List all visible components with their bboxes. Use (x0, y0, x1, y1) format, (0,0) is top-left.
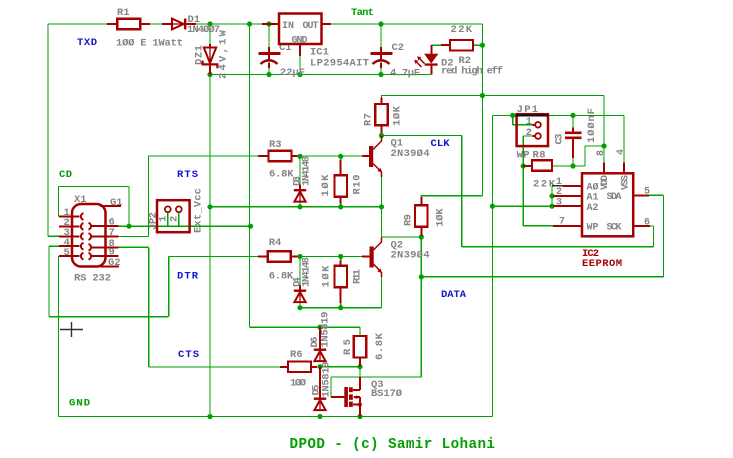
svg-text:G2: G2 (108, 257, 121, 269)
connector JP2 (157, 200, 190, 232)
resistor R6 (280, 366, 289, 368)
svg-text:Tant: Tant (351, 7, 374, 19)
svg-text:CTS: CTS (178, 349, 199, 361)
svg-text:C2: C2 (392, 42, 405, 54)
wire (297, 155, 365, 157)
wire (118, 246, 148, 248)
wire (513, 124, 533, 126)
eeprom IC2 (582, 173, 633, 236)
wire (572, 139, 574, 166)
wire (359, 327, 361, 336)
wire (58, 256, 60, 416)
wire (59, 416, 493, 418)
wire (481, 24, 483, 196)
svg-text:DTR: DTR (177, 271, 199, 283)
junction (601, 143, 606, 148)
svg-text:1N4148: 1N4148 (300, 257, 312, 287)
svg-text:22K: 22K (533, 179, 556, 191)
svg-text:X1: X1 (74, 194, 87, 206)
wire (382, 236, 422, 238)
junction (570, 163, 575, 168)
junction (510, 113, 515, 118)
svg-text:SCK: SCK (607, 222, 622, 233)
junction (317, 325, 322, 330)
wire (492, 205, 552, 207)
diode D6 (319, 327, 321, 348)
svg-text:red high eff: red high eff (441, 66, 503, 78)
svg-text:CLK: CLK (431, 138, 451, 150)
wire (147, 156, 149, 237)
wire (381, 172, 383, 237)
svg-text:2: 2 (526, 127, 532, 139)
svg-text:6.8K: 6.8K (269, 169, 294, 181)
svg-text:1N5819: 1N5819 (321, 362, 333, 398)
wire (492, 114, 624, 116)
wire (462, 246, 654, 248)
regulator IC1 (279, 14, 322, 45)
wire (461, 136, 463, 247)
diode D5 (319, 367, 321, 398)
junction (379, 133, 384, 138)
svg-text:JP2: JP2 (148, 212, 160, 230)
wire (522, 136, 524, 226)
junction (378, 72, 383, 77)
wire (297, 256, 365, 258)
wire (573, 165, 585, 167)
wire (49, 316, 169, 318)
svg-text:4.7µF: 4.7µF (390, 68, 420, 80)
resistor R8 (523, 165, 532, 167)
wire (59, 186, 130, 188)
svg-text:3: 3 (556, 197, 562, 208)
wire (603, 146, 605, 163)
svg-text:DATA: DATA (441, 289, 467, 301)
svg-text:WP: WP (587, 222, 599, 233)
svg-text:8: 8 (596, 150, 607, 156)
svg-text:LP2954AIT: LP2954AIT (310, 58, 369, 70)
capacitor C3 (565, 132, 582, 135)
junction (549, 193, 554, 198)
svg-text:5: 5 (64, 247, 70, 259)
svg-text:AØ: AØ (587, 182, 599, 194)
resistor R4 (258, 256, 268, 258)
junction (357, 364, 362, 369)
wire (47, 24, 49, 236)
LED D2 (430, 45, 432, 54)
svg-text:GND: GND (292, 36, 308, 47)
wire (210, 74, 431, 76)
resistor R11 (340, 261, 342, 267)
junction (247, 21, 252, 26)
wire (148, 247, 150, 367)
junction (266, 72, 271, 77)
wire (420, 196, 422, 206)
wire (148, 155, 258, 157)
svg-text:1ØØ E 1Watt: 1ØØ E 1Watt (116, 38, 183, 50)
junction (248, 224, 253, 229)
wire (49, 245, 59, 247)
svg-text:C3: C3 (554, 134, 566, 145)
junction (357, 414, 362, 419)
svg-text:RTS: RTS (177, 169, 198, 181)
svg-text:RS 232: RS 232 (74, 273, 111, 285)
wire (209, 24, 211, 417)
wire (119, 236, 149, 238)
junction (521, 163, 526, 168)
wire (331, 376, 421, 378)
svg-text:R1: R1 (117, 7, 130, 19)
wire (552, 165, 573, 167)
wire (382, 135, 462, 137)
svg-text:A2: A2 (587, 203, 599, 214)
wire (300, 307, 382, 309)
junction (480, 93, 485, 98)
svg-text:1ØK: 1ØK (321, 265, 333, 288)
wire (381, 95, 604, 97)
svg-text:R7: R7 (363, 113, 375, 126)
zener DZ1 (209, 44, 211, 48)
svg-text:VDD: VDD (600, 175, 611, 190)
junction (338, 154, 343, 159)
wire (340, 257, 342, 266)
resistor R2 (441, 44, 451, 46)
wire (421, 195, 482, 197)
svg-text:6.8K: 6.8K (269, 271, 294, 283)
junction (419, 234, 424, 239)
resistor R10 (340, 160, 342, 175)
wire (119, 225, 251, 227)
wire (603, 96, 605, 147)
diode D4 (299, 285, 301, 290)
svg-text:1N4148: 1N4148 (300, 156, 312, 186)
connector X1 DB9 (72, 204, 106, 267)
resistor R7 (381, 98, 383, 105)
svg-text:EEPROM: EEPROM (582, 258, 622, 270)
svg-text:R3: R3 (269, 139, 282, 151)
junction (338, 204, 343, 209)
wire (380, 24, 382, 75)
wire (299, 202, 301, 207)
svg-text:2N39Ø4: 2N39Ø4 (391, 250, 430, 262)
svg-text:R6: R6 (290, 349, 303, 361)
svg-text:22µF: 22µF (280, 67, 305, 79)
wire (299, 257, 301, 290)
svg-text:SDA: SDA (607, 192, 622, 203)
wire (420, 237, 422, 377)
junction (297, 305, 302, 310)
wire (663, 195, 665, 276)
junction (570, 113, 575, 118)
wire (381, 96, 383, 105)
transistor Q2 (362, 256, 370, 258)
junction (317, 364, 322, 369)
svg-text:R4: R4 (269, 237, 282, 249)
junction (207, 72, 212, 77)
junction (297, 204, 302, 209)
wire (653, 226, 655, 247)
wire (381, 126, 383, 136)
junction (207, 21, 212, 26)
wire (649, 225, 654, 227)
wire (249, 24, 251, 327)
wire (149, 366, 280, 368)
svg-text:Ext_Vcc: Ext_Vcc (192, 188, 204, 233)
wire (431, 44, 441, 46)
svg-text:G1: G1 (110, 197, 123, 209)
svg-text:OUT: OUT (303, 21, 319, 32)
wire (268, 24, 270, 75)
svg-text:6: 6 (644, 218, 650, 229)
jumper JP1 (517, 114, 548, 146)
resistor R9 (420, 197, 422, 206)
resistor R1 (107, 23, 118, 25)
resistor R3 (258, 155, 268, 157)
junction (549, 204, 554, 209)
wire (299, 303, 301, 308)
svg-text:6.8K: 6.8K (374, 332, 386, 360)
junction (297, 254, 302, 259)
wire (48, 23, 482, 25)
junction (378, 21, 383, 26)
svg-text:WP: WP (517, 150, 530, 162)
wire (572, 115, 574, 131)
svg-text:TXD: TXD (77, 37, 97, 49)
svg-text:1ØØnF: 1ØØnF (586, 108, 598, 143)
wire (320, 366, 360, 368)
diode D1 (162, 23, 172, 25)
junction (317, 414, 322, 419)
svg-text:2N39Ø4: 2N39Ø4 (391, 148, 430, 160)
svg-text:22K: 22K (451, 24, 473, 36)
junction (490, 204, 495, 209)
wire (473, 44, 483, 46)
capacitor C2 (380, 47, 382, 53)
junction (126, 224, 131, 229)
wire (340, 156, 342, 173)
wire (340, 197, 342, 207)
wire (381, 273, 383, 308)
wire (128, 187, 130, 227)
junction (338, 305, 343, 310)
wire (210, 206, 382, 208)
junction (297, 72, 302, 77)
svg-text:1ØK: 1ØK (392, 105, 404, 126)
origin cross (60, 322, 83, 337)
svg-text:2: 2 (169, 216, 181, 222)
svg-text:GND: GND (69, 398, 90, 410)
svg-text:1N4ØØ7: 1N4ØØ7 (187, 24, 220, 36)
wire (340, 288, 342, 308)
junction (419, 274, 424, 279)
svg-text:JP1: JP1 (517, 104, 539, 116)
transistor Q3 BS170 (331, 396, 345, 398)
wire (48, 235, 59, 237)
svg-text:1ØK: 1ØK (320, 174, 332, 197)
svg-text:1N5819: 1N5819 (320, 312, 332, 348)
capacitor C1 (268, 47, 270, 53)
diode D3 (299, 185, 301, 190)
wire (623, 115, 625, 162)
svg-text:DZ1: DZ1 (194, 45, 206, 65)
svg-text:BS17Ø: BS17Ø (371, 388, 403, 400)
svg-text:1ØØ: 1ØØ (290, 378, 307, 390)
svg-text:IN: IN (282, 21, 294, 32)
svg-text:4: 4 (616, 149, 627, 155)
svg-text:DPOD - (c) Samir Lohani: DPOD - (c) Samir Lohani (290, 437, 496, 453)
svg-text:R9: R9 (403, 214, 415, 226)
svg-text:R10: R10 (352, 175, 364, 195)
wire (250, 326, 361, 328)
transistor Q1 (362, 155, 369, 157)
wire (48, 246, 50, 316)
svg-text:VSS: VSS (621, 175, 632, 190)
wire (649, 194, 664, 196)
wire (168, 257, 170, 317)
junction (480, 43, 485, 48)
resistor R5 (354, 336, 367, 358)
svg-text:CD: CD (59, 169, 72, 181)
wire (299, 156, 301, 189)
wire (330, 377, 332, 397)
svg-text:7: 7 (559, 217, 565, 228)
svg-text:1ØK: 1ØK (435, 208, 447, 227)
junction (207, 414, 212, 419)
wire (167, 213, 169, 227)
junction (379, 204, 384, 209)
wire (178, 213, 180, 227)
svg-text:R11: R11 (352, 269, 364, 284)
wire (359, 367, 361, 377)
wire (58, 187, 60, 217)
wire (491, 115, 493, 416)
junction (297, 154, 302, 159)
wire (584, 146, 586, 166)
wire (585, 145, 604, 147)
wire (523, 135, 532, 137)
wire (512, 115, 514, 124)
junction (266, 21, 271, 26)
wire (551, 186, 553, 206)
wire (299, 44, 301, 75)
wire (523, 225, 553, 227)
junction (338, 254, 343, 259)
svg-text:5: 5 (644, 187, 650, 198)
wire (421, 276, 663, 278)
wire (169, 256, 258, 258)
junction (207, 204, 212, 209)
